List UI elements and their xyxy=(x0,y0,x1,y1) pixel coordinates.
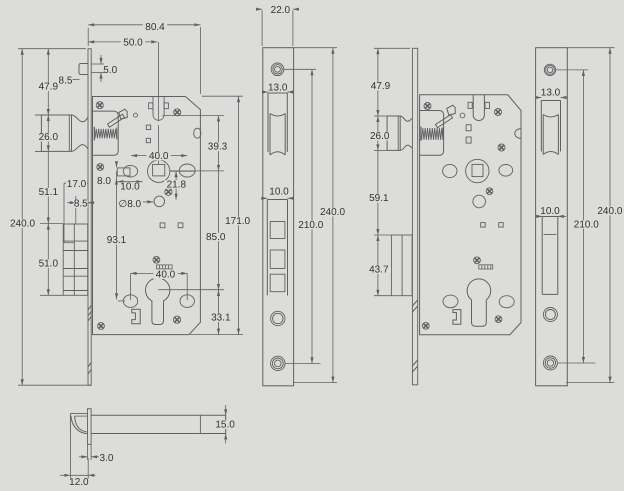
svg-text:93.1: 93.1 xyxy=(107,235,127,246)
svg-text:15.0: 15.0 xyxy=(215,420,235,431)
view2 deadbolt slot xyxy=(267,200,287,296)
dim dia 8.0 xyxy=(143,201,153,203)
view3 circle below follower xyxy=(473,195,486,208)
view3 handle left oval xyxy=(443,164,457,177)
view5 case bottom bar xyxy=(91,415,226,433)
view1 center line xyxy=(158,42,160,121)
dim 17.0 xyxy=(64,182,88,184)
view1 latch bolt head xyxy=(41,115,71,151)
dim 40.0 lower xyxy=(131,272,188,274)
svg-text:80.4: 80.4 xyxy=(145,22,165,33)
svg-text:8.0: 8.0 xyxy=(97,176,111,187)
view4 latch bolt front xyxy=(543,115,558,155)
view1 right edge notch oval xyxy=(194,128,201,138)
svg-text:39.3: 39.3 xyxy=(208,142,228,153)
view1 right oval hole xyxy=(179,164,195,177)
svg-text:240.0: 240.0 xyxy=(320,207,345,218)
svg-text:240.0: 240.0 xyxy=(10,219,35,230)
view3 retainer clip xyxy=(453,310,461,325)
view1 screw boss above cylinder xyxy=(153,256,160,263)
svg-text:50.0: 50.0 xyxy=(123,38,143,49)
view3 deadbolt retracted xyxy=(391,235,412,296)
view5 dim 3.0 xyxy=(87,444,89,460)
view3 latch bolt head xyxy=(387,116,400,150)
view1 screw boss lower-left xyxy=(98,323,105,330)
view1 screw boss top-left xyxy=(96,102,103,109)
svg-text:26.0: 26.0 xyxy=(39,132,59,143)
view1 retainer clip xyxy=(132,309,140,324)
view3 follower hub xyxy=(466,159,489,182)
view3 small square b xyxy=(466,137,471,143)
view1 small pivot circle xyxy=(134,113,138,117)
view3 right oval xyxy=(499,165,513,177)
view3 notch left tab xyxy=(468,102,472,108)
view2 dim 210.0 xyxy=(284,68,316,70)
leader 8.5 top xyxy=(73,79,80,81)
view3 lever tab xyxy=(447,105,455,115)
view3 latch spring xyxy=(420,127,422,141)
view3 latch tail housing xyxy=(420,111,444,156)
view1 top guide notch xyxy=(153,97,164,121)
view3 faceplate hatches xyxy=(412,300,417,372)
view4 dim 210.0 xyxy=(556,69,588,71)
view2 faceplate front xyxy=(263,48,294,386)
svg-text:33.1: 33.1 xyxy=(211,313,231,324)
view3 dim 26.0 xyxy=(377,116,379,150)
svg-text:171.0: 171.0 xyxy=(225,216,250,227)
view3 right edge notch xyxy=(515,129,521,139)
svg-text:17.0: 17.0 xyxy=(67,179,87,190)
view3 lock body outline xyxy=(420,95,521,335)
svg-text:47.9: 47.9 xyxy=(39,82,59,93)
view3 small square c xyxy=(481,223,486,228)
svg-text:∅8.0: ∅8.0 xyxy=(118,199,141,210)
svg-text:13.0: 13.0 xyxy=(541,88,561,99)
dim 51.1 xyxy=(47,151,49,223)
view1 latch tail housing xyxy=(93,111,119,155)
view3 top guide notch xyxy=(473,95,484,121)
tab detail xyxy=(79,64,88,75)
svg-text:43.7: 43.7 xyxy=(369,265,389,276)
svg-text:210.0: 210.0 xyxy=(574,219,599,230)
view1 cylinder left oval xyxy=(123,295,137,308)
view1 lever tab xyxy=(119,109,127,119)
view1 euro cylinder hole xyxy=(146,278,170,325)
dim 80.4 xyxy=(88,24,200,26)
dim 8.5 xyxy=(67,202,76,204)
view5 strike lip inner xyxy=(75,415,88,417)
view2 dim 240.0 xyxy=(294,47,337,49)
dim 8.0 xyxy=(116,163,118,167)
view1 handle hub left slot xyxy=(117,168,130,176)
dim 51.0 xyxy=(47,224,49,296)
view2 latch bolt front xyxy=(270,114,285,156)
view5 faceplate section xyxy=(88,409,92,445)
svg-text:3.0: 3.0 xyxy=(100,453,114,464)
svg-text:10.0: 10.0 xyxy=(540,206,560,217)
dim 85.0 xyxy=(218,171,220,290)
svg-text:51.1: 51.1 xyxy=(39,187,59,198)
view2 deadbolt squares xyxy=(270,222,285,239)
svg-text:13.0: 13.0 xyxy=(268,82,288,93)
view1 screw boss mid-left xyxy=(97,164,104,171)
view1 screw boss lower-right xyxy=(173,316,180,323)
view1 small square a xyxy=(146,125,150,129)
view1 small square b xyxy=(146,138,150,142)
view3 dim 59.1 xyxy=(377,150,379,235)
view3 lever bar xyxy=(436,115,453,128)
svg-text:22.0: 22.0 xyxy=(271,5,291,16)
view2 lower hole xyxy=(271,311,285,325)
view1 notch left tab xyxy=(149,103,153,109)
svg-text:12.0: 12.0 xyxy=(69,477,89,488)
view1 hole dia8 xyxy=(154,196,165,207)
view2 latch cutout xyxy=(268,93,287,152)
view4 faceplate front xyxy=(536,48,568,386)
svg-text:5.0: 5.0 xyxy=(103,65,117,76)
view3 dim 43.7 xyxy=(377,235,379,296)
view3 latch neck bottom xyxy=(400,145,412,150)
view3 small square a xyxy=(466,125,471,131)
view3 screw boss top-mid xyxy=(495,109,502,116)
svg-text:26.0: 26.0 xyxy=(370,131,390,142)
svg-text:10.0: 10.0 xyxy=(120,181,140,192)
view1 lever bar xyxy=(108,114,125,127)
view3 dim 47.9 xyxy=(374,47,410,49)
view4 slot inner edge xyxy=(544,234,557,236)
view3 cylinder right oval xyxy=(499,296,514,308)
view1 screw boss mid xyxy=(165,188,172,195)
view3 screw boss lower-right xyxy=(495,316,502,323)
view3 faceplate (side) xyxy=(412,48,417,385)
svg-text:8.5: 8.5 xyxy=(59,75,73,86)
view5 dim 12.0 xyxy=(69,434,71,479)
dim 33.1 xyxy=(218,290,220,335)
view4 dim 240.0 xyxy=(566,47,614,49)
view3 screw boss right xyxy=(498,144,505,151)
dim 5.0 xyxy=(91,63,104,65)
view1 faceplate (side) xyxy=(88,49,91,386)
view1 notch right tab xyxy=(164,103,168,109)
view3 screw boss top-left xyxy=(424,103,431,110)
dim 26.0 xyxy=(35,114,44,116)
view4 bottom screw hole xyxy=(543,356,557,370)
view3 latch neck top xyxy=(400,116,412,121)
view1 cylinder right oval xyxy=(180,295,194,308)
view1 serrated strip xyxy=(157,265,173,269)
view1 small square d xyxy=(178,223,183,228)
svg-text:240.0: 240.0 xyxy=(597,206,622,217)
view3 small pivot circle xyxy=(460,113,465,118)
view4 latch cutout xyxy=(541,101,560,152)
view3 small square d xyxy=(499,223,504,228)
latch top/bottom extension xyxy=(35,114,41,116)
view1 latch neck top xyxy=(72,115,89,122)
view1 small square c xyxy=(160,223,165,228)
view3 cylinder left oval xyxy=(443,295,458,308)
view4 deadbolt slot xyxy=(542,217,558,295)
svg-text:21.8: 21.8 xyxy=(167,179,187,190)
svg-text:47.9: 47.9 xyxy=(371,81,391,92)
view4 top screw hole xyxy=(544,64,555,75)
view1 follower hub xyxy=(148,160,170,182)
view1 lock body outline xyxy=(93,97,201,335)
svg-text:210.0: 210.0 xyxy=(298,220,323,231)
dim 39.3 xyxy=(163,115,225,117)
dim 47.9 xyxy=(18,48,86,50)
view4 lower hole xyxy=(543,308,557,322)
view3 euro cylinder hole xyxy=(467,279,491,326)
view1 latch neck bottom xyxy=(72,145,89,152)
view2 dim 22.0 xyxy=(261,10,263,46)
svg-text:10.0: 10.0 xyxy=(269,186,289,197)
view3 screw boss lower-left xyxy=(422,322,429,329)
view1 latch spring xyxy=(93,127,95,141)
view1 faceplate hatch marks xyxy=(88,305,92,374)
view3 screw boss + serrated strip xyxy=(474,257,481,264)
dim 50.0 xyxy=(88,41,157,43)
view1 deadbolt (thrown) xyxy=(63,224,87,295)
view3 notch right tab xyxy=(485,102,490,108)
dim 240.0 left xyxy=(21,49,23,386)
svg-text:8.5: 8.5 xyxy=(74,199,88,210)
view5 strike lip outer xyxy=(69,413,71,433)
view5 case inner line xyxy=(199,415,201,433)
dim 10.0 xyxy=(117,181,142,183)
svg-text:59.1: 59.1 xyxy=(369,193,389,204)
svg-text:51.0: 51.0 xyxy=(39,259,59,270)
svg-text:40.0: 40.0 xyxy=(149,151,169,162)
svg-text:85.0: 85.0 xyxy=(206,232,226,243)
dim 171.0 xyxy=(202,95,243,97)
dim 93.1 xyxy=(116,171,118,299)
view2 top screw hole xyxy=(271,63,284,76)
view2 bottom screw hole xyxy=(271,356,285,370)
svg-text:40.0: 40.0 xyxy=(156,270,176,281)
view1 screw boss top-right xyxy=(174,109,181,116)
dim 21.8 xyxy=(170,170,196,172)
view3 screw boss below follower xyxy=(486,188,493,195)
dim 40.0 upper xyxy=(131,155,187,157)
view5 dim 15.0 xyxy=(225,405,227,415)
